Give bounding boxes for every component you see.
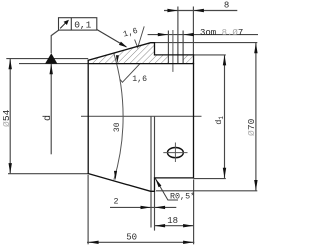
svg-text:30: 30 (113, 122, 122, 132)
svg-text:d: d (42, 115, 54, 121)
svg-text:R0,5*: R0,5* (170, 191, 195, 201)
svg-text:Ø54: Ø54 (1, 109, 12, 127)
svg-text:2: 2 (113, 197, 118, 207)
svg-text:3om 8.Ø7: 3om 8.Ø7 (200, 28, 243, 38)
svg-text:50: 50 (126, 233, 137, 243)
svg-text:1,6: 1,6 (132, 75, 147, 84)
svg-text:18: 18 (167, 216, 178, 226)
svg-text:Ø70: Ø70 (246, 118, 257, 136)
svg-text:8: 8 (224, 1, 229, 11)
svg-text:0,1: 0,1 (74, 20, 91, 31)
